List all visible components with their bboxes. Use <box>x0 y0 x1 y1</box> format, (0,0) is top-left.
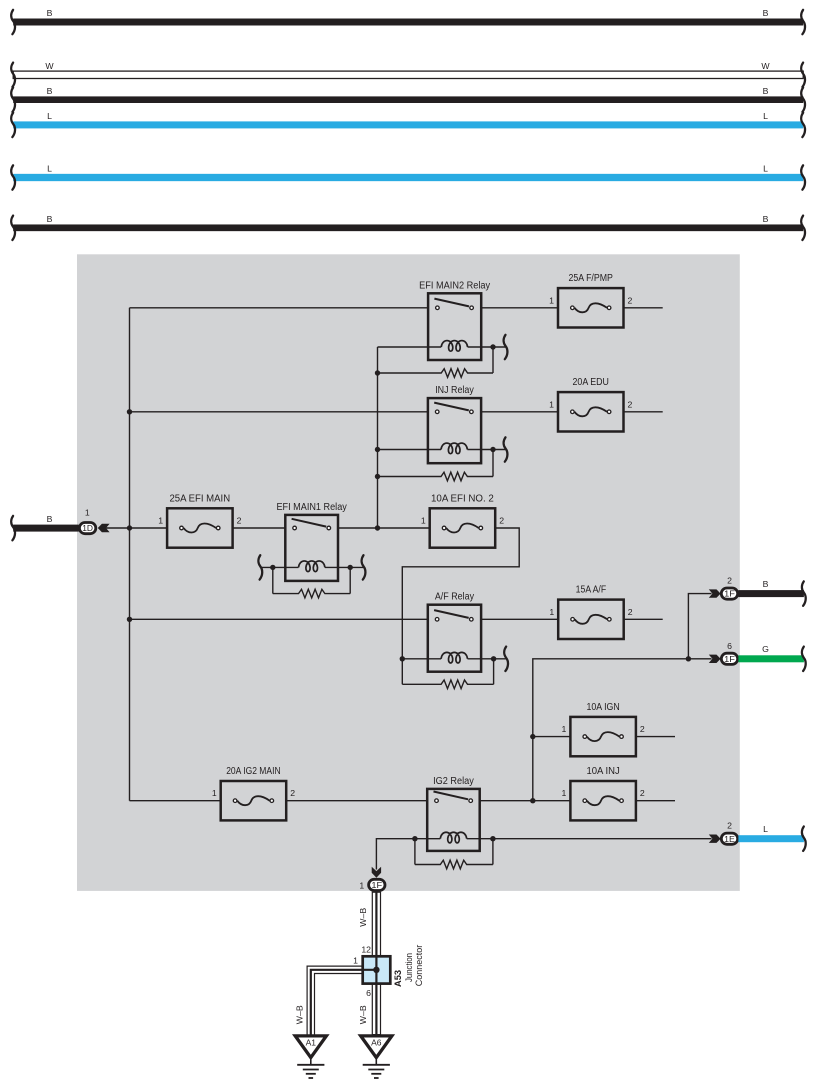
junction dots EFI MAIN2 <box>490 344 495 349</box>
svg-text:12: 12 <box>361 944 371 954</box>
fuse 20A EDU <box>549 377 632 431</box>
svg-text:10A INJ: 10A INJ <box>586 766 619 777</box>
fuse 25A EFI MAIN <box>158 493 241 547</box>
wire stripe W-B to A1 <box>311 970 377 1035</box>
svg-text:1: 1 <box>353 955 358 965</box>
junction dots EFI MAIN1 <box>270 565 275 570</box>
wire B to connector 1D <box>11 514 79 540</box>
wire row6 IG2 relay to fuse 10A INJ <box>480 800 571 802</box>
wire riser to 1F pin2 <box>688 594 711 659</box>
wire B harness (black3) <box>11 214 805 240</box>
fuse 10A INJ <box>562 766 645 820</box>
svg-text:2: 2 <box>727 576 732 586</box>
relay EFI MAIN2 <box>419 280 490 360</box>
svg-text:1F: 1F <box>724 589 735 599</box>
svg-text:1F: 1F <box>724 654 735 664</box>
wire row5 bus to fuse 10A IGN <box>533 736 571 738</box>
svg-text:B: B <box>47 86 53 96</box>
wire B harness (black1) <box>11 8 805 34</box>
svg-text:B: B <box>763 214 769 224</box>
svg-text:15A A/F: 15A A/F <box>576 585 607 596</box>
svg-text:A6: A6 <box>371 1038 382 1048</box>
wire row6 bus to fuse 20A IG2 MAIN <box>130 800 221 802</box>
svg-text:B: B <box>763 8 769 18</box>
relay IG2 <box>427 776 480 851</box>
wire EFI MAIN2 coil bus <box>377 347 379 528</box>
wire 10A IGN output <box>636 736 675 738</box>
coil INJ relay <box>378 443 506 454</box>
resistor EFI MAIN2 <box>378 347 494 377</box>
svg-text:2: 2 <box>290 788 295 798</box>
junction dots main bus <box>127 409 132 414</box>
connector 1F (B) <box>721 588 737 599</box>
svg-text:25A F/PMP: 25A F/PMP <box>569 273 614 284</box>
ground A1 <box>295 1036 326 1078</box>
svg-text:W–B: W–B <box>294 1005 304 1024</box>
junction dot A53 <box>373 967 379 973</box>
svg-text:2: 2 <box>640 788 645 798</box>
resistor IG2 relay <box>415 839 493 869</box>
svg-text:1: 1 <box>212 788 217 798</box>
fuse 25A F/PMP <box>549 273 632 327</box>
wire W harness (white) <box>11 61 805 87</box>
relay INJ <box>428 385 481 463</box>
svg-text:W: W <box>761 61 770 71</box>
relay EFI MAIN1 <box>276 502 346 581</box>
resistor INJ relay <box>378 450 494 481</box>
connector 1F (G) <box>721 653 737 664</box>
junction connector A53 <box>363 956 391 983</box>
arrow at 1F pin6 <box>709 655 721 663</box>
wire 10A EFI NO.2 output loop <box>402 528 519 659</box>
svg-text:W: W <box>45 61 54 71</box>
wire break after A/F coil <box>504 647 508 671</box>
svg-text:L: L <box>47 164 52 174</box>
svg-text:Junction: Junction <box>404 953 414 982</box>
svg-text:2: 2 <box>628 295 633 305</box>
svg-text:L: L <box>47 111 52 121</box>
resistor A/F relay <box>402 659 493 689</box>
junction dots IG2 relay <box>412 836 417 841</box>
wire break after INJ coil <box>504 437 508 461</box>
svg-text:A1: A1 <box>306 1038 317 1048</box>
svg-text:2: 2 <box>499 516 504 526</box>
svg-text:25A EFI MAIN: 25A EFI MAIN <box>169 493 230 504</box>
wire row3 1D to bus <box>104 527 167 529</box>
svg-text:L: L <box>763 111 768 121</box>
ground A6 <box>361 1036 392 1078</box>
wire L from 1E <box>738 824 805 851</box>
wire G from 1F <box>738 644 805 671</box>
wire main vertical bus <box>129 308 131 801</box>
wire L harness (blue2) <box>11 164 805 190</box>
wire 15A A/F output <box>624 618 663 620</box>
arrow at 1D <box>98 524 110 532</box>
wire break after EFI MAIN2 coil <box>504 335 508 359</box>
svg-text:1F: 1F <box>371 880 382 890</box>
svg-text:10A IGN: 10A IGN <box>586 702 619 713</box>
svg-text:B: B <box>763 86 769 96</box>
wire row3 relay to fuse 10A EFI NO.2 <box>338 527 430 529</box>
junction dots INJ relay <box>375 447 380 452</box>
wire B harness (black2) <box>11 86 805 112</box>
svg-text:EFI MAIN2 Relay: EFI MAIN2 Relay <box>419 280 490 291</box>
wire stripe W-B vertical <box>375 892 377 1034</box>
svg-text:2: 2 <box>727 821 732 831</box>
coil IG2 relay <box>376 832 711 869</box>
wire W-B A53 pin1 to ground A1 <box>311 970 363 1035</box>
wire row1 relay to fuse 25A F/PMP <box>481 307 558 309</box>
svg-text:6: 6 <box>366 988 371 998</box>
wire B from 1F <box>738 579 805 606</box>
wire row2 to INJ relay <box>130 411 428 413</box>
svg-text:B: B <box>47 214 53 224</box>
wire row4 relay to fuse 15A A/F <box>481 618 558 620</box>
wire row4 to A/F relay <box>130 618 428 620</box>
wire break right of EFI MAIN1 coil <box>362 555 366 579</box>
svg-text:1E: 1E <box>724 834 735 844</box>
fuse 20A IG2 MAIN <box>212 766 295 820</box>
wire 10A INJ output <box>636 800 675 802</box>
wire W-B 1F to A53 <box>372 892 380 956</box>
fuse 10A IGN <box>562 702 645 756</box>
connector 1E <box>721 833 737 844</box>
wire row2 relay to fuse 20A EDU <box>481 411 558 413</box>
wire row6 fuse to IG2 relay <box>286 800 427 802</box>
wire W-B A53 pin6 to ground A6 <box>372 984 380 1035</box>
coil EFI MAIN1 <box>260 561 363 572</box>
svg-text:INJ Relay: INJ Relay <box>435 385 474 396</box>
connector 1D <box>79 523 95 534</box>
junction dots G feed bus <box>530 734 535 739</box>
svg-text:2: 2 <box>237 516 242 526</box>
svg-text:1: 1 <box>549 295 554 305</box>
svg-text:A53: A53 <box>393 970 404 987</box>
svg-text:W–B: W–B <box>358 1005 368 1024</box>
svg-text:Connector: Connector <box>414 945 424 987</box>
svg-text:1: 1 <box>359 880 364 890</box>
svg-text:EFI MAIN1 Relay: EFI MAIN1 Relay <box>276 502 346 513</box>
svg-text:B: B <box>47 8 53 18</box>
fuse 15A A/F <box>549 585 632 639</box>
fuse 10A EFI NO.2 <box>421 493 504 547</box>
svg-text:2: 2 <box>628 399 633 409</box>
wire L harness (blue1) <box>11 111 805 137</box>
coil A/F relay <box>402 652 506 663</box>
wire row3 fuse to EFI MAIN1 relay <box>233 527 286 529</box>
wire 20A EDU output <box>624 411 663 413</box>
svg-text:2: 2 <box>640 724 645 734</box>
svg-text:L: L <box>763 824 768 834</box>
svg-text:6: 6 <box>727 641 732 651</box>
wire break left of EFI MAIN1 coil <box>258 555 262 579</box>
svg-text:1D: 1D <box>82 523 93 533</box>
junction dots A/F relay <box>400 656 405 661</box>
arrow at 1F pin1 <box>372 867 381 878</box>
relay A/F <box>428 592 481 672</box>
svg-text:20A IG2 MAIN: 20A IG2 MAIN <box>226 766 280 777</box>
svg-text:1: 1 <box>85 508 90 518</box>
coil EFI MAIN2 <box>378 341 506 352</box>
arrow at 1E <box>709 835 721 843</box>
arrow at 1F pin2 <box>709 589 721 597</box>
svg-text:1: 1 <box>158 516 163 526</box>
svg-text:IG2 Relay: IG2 Relay <box>433 776 474 787</box>
wire 25A F/PMP output <box>624 307 663 309</box>
svg-text:20A EDU: 20A EDU <box>573 377 609 388</box>
resistor EFI MAIN1 <box>273 567 350 597</box>
svg-text:1: 1 <box>562 724 567 734</box>
svg-text:G: G <box>762 644 769 654</box>
wire G feed bus <box>533 659 712 801</box>
svg-text:1: 1 <box>549 399 554 409</box>
svg-text:B: B <box>763 579 769 589</box>
svg-text:2: 2 <box>628 607 633 617</box>
svg-text:A/F Relay: A/F Relay <box>435 592 474 603</box>
svg-text:W–B: W–B <box>358 908 368 927</box>
svg-text:L: L <box>763 164 768 174</box>
connector 1F (down) <box>369 879 385 890</box>
svg-text:B: B <box>47 514 53 524</box>
wire row1 to EFI MAIN2 relay <box>130 307 429 309</box>
relay block background <box>77 254 740 891</box>
svg-text:1: 1 <box>421 516 426 526</box>
svg-text:10A EFI NO. 2: 10A EFI NO. 2 <box>431 493 494 504</box>
svg-text:1: 1 <box>562 788 567 798</box>
svg-text:1: 1 <box>549 607 554 617</box>
